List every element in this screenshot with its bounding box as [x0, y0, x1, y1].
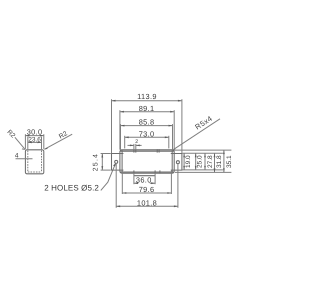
- main view body bottom inner line: [120, 171, 173, 173]
- dimension 85.8 line: [121, 125, 173, 127]
- dimension 79.6 line: [122, 192, 171, 194]
- left flange: [112, 154, 124, 171]
- dimension 23.6 line: [28, 141, 42, 143]
- dimension 36.0 line: [134, 182, 138, 184]
- right extension line flange bottom: [183, 169, 223, 171]
- svg-text:113.9: 113.9: [137, 92, 157, 101]
- main view inner wall right: [171, 150, 173, 173]
- leader for holes note: [101, 164, 116, 191]
- dimension 101.8 extension lines: [115, 164, 117, 208]
- dimension 25.4 line: [101, 154, 103, 171]
- left view outline: [25, 150, 43, 174]
- leader R2 right: [44, 134, 72, 149]
- dimension 19.0: [183, 153, 185, 170]
- dimension 73.0 extension lines: [124, 136, 126, 149]
- main view body top inner line: [120, 150, 173, 152]
- svg-text:2 HOLES Ø5.2: 2 HOLES Ø5.2: [44, 184, 99, 193]
- dimension 113.9 extension lines: [111, 99, 113, 153]
- left view hidden inner bottom: [28, 171, 42, 173]
- left view hidden inner wall left: [27, 151, 29, 172]
- dimension 73.0 line: [125, 136, 169, 138]
- left flange hole: [115, 160, 118, 163]
- dimension 35.1: [223, 150, 225, 172]
- bottom foot lip: [134, 175, 155, 177]
- svg-text:35.1: 35.1: [226, 155, 233, 168]
- dimension 89.1 extension lines: [119, 110, 121, 150]
- dimension 2 lines: [133, 144, 135, 149]
- leader R2 left: [15, 137, 25, 149]
- dimension 30.0 line: [25, 135, 43, 137]
- dimension 113.9 line: [112, 100, 182, 102]
- dimension 89.1 line: [120, 111, 174, 113]
- dimension 30.0 extension lines: [24, 134, 26, 149]
- leader R5x4: [172, 119, 220, 151]
- dimension 85.8 extension lines: [120, 124, 122, 150]
- dimension 101.8 line: [116, 205, 178, 207]
- dimension 23.6 extension lines: [27, 137, 29, 150]
- top slot right: [156, 149, 158, 152]
- dimension 25.0: [195, 153, 197, 170]
- dimension 25.4 extension lines: [101, 153, 111, 155]
- svg-text:25.4: 25.4: [93, 153, 100, 171]
- dimension 79.6 extension lines: [121, 171, 123, 194]
- right flange: [171, 154, 182, 171]
- dimension 36.0 extension lines: [133, 173, 135, 184]
- right extension line flange top: [183, 152, 223, 154]
- left view hidden inner wall right: [41, 151, 43, 172]
- main view inner wall left: [121, 150, 123, 173]
- main view body outline: [120, 150, 174, 173]
- dimension 27.8: [204, 153, 206, 170]
- dimension 31.8: [214, 153, 216, 172]
- svg-text:25.0: 25.0: [196, 155, 203, 168]
- right extension line bottom outer: [175, 171, 231, 173]
- bottom foot side ticks: [133, 170, 135, 173]
- right flange hole: [176, 161, 179, 164]
- leader for 4: [16, 158, 33, 160]
- svg-text:27.8: 27.8: [207, 155, 214, 168]
- svg-text:19.0: 19.0: [185, 155, 192, 168]
- bottom slot tick right: [159, 170, 161, 173]
- right extension line top outer: [175, 149, 231, 151]
- top slot left: [133, 149, 135, 152]
- svg-text:31.8: 31.8: [216, 155, 223, 168]
